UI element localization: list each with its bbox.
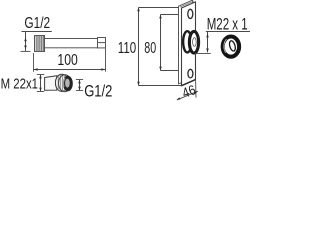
svg-text:G1/2: G1/2 (24, 15, 50, 32)
tick top (76, 79, 83, 81)
svg-text:80: 80 (144, 40, 156, 57)
union nut body (3d) : left cylinder (45, 76, 57, 91)
union nut ring front rim (55, 74, 68, 91)
dim 100: extension left (33, 53, 35, 72)
leader underline for G1/2 (22, 31, 52, 33)
opening highlight upper-left (63, 78, 65, 87)
arrow down (39, 88, 42, 92)
backnut ring (223, 37, 239, 57)
pipe end block (98, 38, 106, 48)
dim 100: line with arrows (34, 69, 106, 71)
arrow right-up (194, 91, 198, 94)
tick bottom (37, 91, 44, 93)
dim M22x1: vertical line (40, 75, 42, 92)
knurl stripes (58, 75, 64, 92)
nut opening dark ring (63, 76, 73, 92)
plate front face (182, 2, 196, 86)
tick bottom (76, 90, 83, 92)
arrow down (159, 67, 162, 71)
arrow up (24, 38, 27, 42)
opening inner (65, 79, 70, 88)
dim 110: top extension (139, 7, 182, 9)
dim M22: vertical line (207, 32, 209, 53)
tick bottom under boss (195, 53, 211, 55)
dimension line G1/2 pipe diameter (25, 32, 27, 52)
dim G1/2: vertical line (79, 80, 81, 91)
dim 110: vertical line (138, 8, 140, 86)
arrow up (137, 8, 140, 12)
arrow up (39, 75, 42, 79)
plate top band middle line (180, 1, 194, 7)
end block mid line (98, 42, 106, 44)
dim 46: line (177, 91, 198, 100)
boss ring right (189, 31, 198, 53)
top hole (188, 9, 193, 18)
svg-text:M22 x 1: M22 x 1 (207, 15, 248, 34)
arrow down (78, 87, 81, 91)
plate bottom edge bold (182, 80, 196, 86)
arrow down (137, 82, 140, 86)
M22 leader underline (206, 31, 250, 33)
union nut knurled body outline (59, 75, 72, 92)
svg-text:100: 100 (57, 52, 78, 69)
svg-text:M 22x1: M 22x1 (1, 77, 38, 93)
arrow up (78, 80, 81, 84)
pipe body (45, 39, 98, 48)
plate back face (179, 0, 193, 84)
tick bottom of thread (21, 50, 31, 52)
arrow down (206, 49, 209, 53)
arrow up (206, 34, 209, 38)
dim 46: right extension (195, 80, 197, 97)
boss inner sliver (193, 38, 197, 47)
backnut left inner gap (224, 39, 227, 53)
arrow up (159, 15, 162, 19)
boss ring left (183, 31, 191, 52)
thread block (35, 36, 45, 52)
dim 80: bottom extension (161, 70, 189, 72)
tick top (37, 74, 44, 76)
arrow down (24, 46, 27, 50)
arrow left-down (177, 97, 181, 100)
bottom hole (188, 69, 193, 78)
svg-text:110: 110 (118, 40, 136, 57)
backnut inner white sliver (228, 40, 236, 52)
svg-text:G1/2: G1/2 (84, 81, 112, 100)
dim 80: vertical line (160, 15, 162, 71)
dim 100: extension right (105, 49, 107, 72)
dim 80: top extension (161, 14, 189, 16)
dim 110: bottom extension (139, 85, 182, 87)
